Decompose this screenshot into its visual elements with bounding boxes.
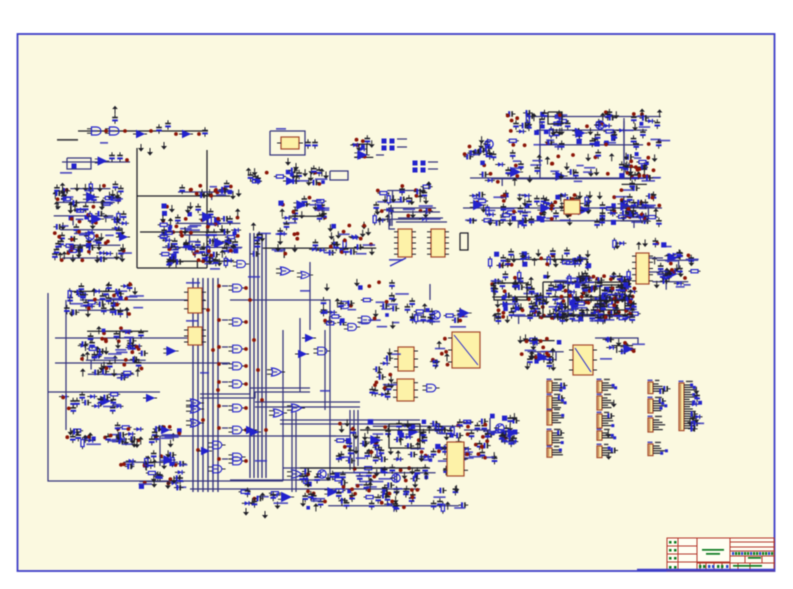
wire box (137, 195, 230, 197)
resistor (Z1) (109, 197, 121, 200)
diode (Z7b) (618, 284, 628, 288)
capacitor (Z16b) (631, 199, 637, 209)
node (Z3b) (193, 252, 197, 256)
part (Z6a) (594, 141, 599, 146)
ground (Z10e) (165, 450, 171, 458)
node (Z10e) (122, 462, 126, 466)
node (Z3a) (195, 192, 199, 196)
ground (293, 163, 299, 171)
capacitor (Z9a) (321, 297, 327, 307)
op-amp U20 (617, 202, 632, 211)
diode (Z11b) (606, 345, 616, 349)
gate column (228, 380, 245, 388)
capacitor (Z4a) (255, 175, 261, 185)
wire (621, 220, 650, 222)
ground (Z7a) (511, 255, 517, 263)
capacitor (Z9b) (421, 314, 427, 324)
ground (Z12a) (389, 381, 395, 389)
resistor (Z1) (74, 209, 86, 212)
capacitor (Z6c) (493, 220, 503, 226)
capacitor (Z6c) (503, 190, 509, 200)
label (Z9b) (418, 320, 430, 322)
power VCC (Z7b) (534, 294, 540, 302)
capacitor (Z10b) (127, 340, 133, 350)
diode (Z7b) (601, 288, 611, 292)
label (Z9b) (415, 314, 422, 316)
capacitor (Z12b) (447, 427, 453, 437)
node (Z3b) (161, 219, 165, 223)
capacitor (Z7b) (495, 311, 501, 321)
diode (Z12b) (441, 445, 451, 449)
capacitor (Z7b) (548, 282, 554, 292)
ground (Z7b) (560, 282, 566, 290)
node (Z7b) (613, 297, 617, 301)
part (Z8) (623, 282, 628, 287)
resistor (Z10b) (121, 371, 133, 374)
resistor (Z3b) (159, 253, 171, 256)
buffer U31 (143, 395, 157, 402)
node (Z12c) (342, 485, 346, 489)
capacitor (Z10d) (105, 433, 111, 443)
capacitor (Z3b) (221, 229, 231, 235)
power VCC (Z1) (62, 251, 68, 259)
ic U29 rotated (448, 332, 480, 368)
resistor (Z3b) (168, 247, 180, 250)
capacitor (Z7d) (677, 265, 683, 275)
ground (Z4a) (308, 167, 314, 175)
capacitor (Z4a) (248, 172, 254, 182)
part (Z6a) (541, 124, 545, 128)
resistor (Z1) (117, 211, 120, 223)
ground (Z6c) (487, 218, 493, 226)
node (Z7b) (616, 300, 620, 304)
ground (Z10b) (103, 347, 109, 355)
power VCC (Z12c) (339, 498, 345, 506)
label (Z12c) (360, 481, 370, 483)
capacitor (Z19) (483, 146, 493, 152)
diode (Z5b) (376, 218, 386, 222)
capacitor (Z19) (468, 150, 478, 156)
node (Z5b) (414, 188, 418, 192)
capacitor (Z7b) (512, 280, 518, 290)
resistor (Z5b) (421, 185, 433, 188)
capacitor (Z7b) (532, 303, 538, 313)
op-amp U13 (354, 151, 369, 160)
wire (501, 179, 503, 186)
capacitor (Z1) (58, 238, 64, 248)
node (Z3b) (207, 249, 211, 253)
diode (Z10b) (121, 374, 131, 378)
capacitor (Z7b) (496, 315, 502, 325)
node (Z8) (614, 313, 618, 317)
ground (Z12b) (491, 452, 497, 460)
node (Z3a) (189, 188, 193, 192)
power VCC (Z8) (602, 315, 608, 323)
power VCC (Z7b) (611, 272, 617, 280)
op-amp U27 (456, 309, 471, 318)
capacitor (Z6b) (510, 150, 516, 160)
capacitor (Z12b) (431, 448, 437, 458)
label (Z7b) (539, 296, 549, 298)
wire (528, 351, 564, 353)
capacitor (Z10f) (174, 485, 184, 491)
capacitor C11 (312, 139, 318, 149)
ground (Z8) (571, 310, 577, 318)
part (Z7b) (597, 316, 601, 320)
power VCC (Z9a) (335, 298, 341, 306)
capacitor (Z12c) (375, 494, 381, 504)
ground (Z12b) (362, 440, 368, 448)
power VCC (Z5b) (426, 181, 432, 189)
ground (Z16b) (621, 196, 627, 204)
capacitor (Z9b) (452, 317, 462, 323)
node (Z9a) (367, 284, 371, 288)
node (Z7d) (670, 268, 674, 272)
capacitor (Z6c) (553, 210, 559, 220)
diode (Z10c) (91, 404, 101, 408)
capacitor (Z6b) (491, 151, 497, 161)
capacitor (Z7b) (552, 306, 562, 312)
capacitor (Z7b) (532, 311, 542, 317)
capacitor (Z19) (477, 147, 487, 153)
diode (Z6c) (469, 194, 479, 198)
diode (Z9c) (430, 359, 440, 363)
node (Z6b) (515, 174, 519, 178)
node (Z10d) (65, 435, 69, 439)
wire loop (548, 112, 562, 124)
power VCC (Z1) (68, 202, 74, 210)
power VCC (Z3b) (168, 218, 174, 226)
diode (Z5b) (419, 217, 429, 221)
capacitor (Z10a) (111, 300, 117, 310)
label (Z12c) (314, 498, 325, 500)
wire loop (396, 221, 447, 223)
diode (Z5b) (384, 208, 394, 212)
wire (89, 245, 91, 255)
part (Z9band) (331, 224, 336, 229)
node bus (217, 284, 221, 288)
resistor (Z10d) (120, 426, 132, 429)
label (Z10d) (162, 434, 173, 436)
capacitor (Z12b) (385, 428, 391, 438)
capacitor (Z5b) (406, 195, 412, 205)
label (Z6a) (639, 126, 651, 128)
label (Z6c) (501, 208, 515, 210)
ground (Z7d) (688, 259, 694, 267)
label (Z10g) (258, 496, 269, 498)
ground (Z11a) (529, 352, 535, 360)
capacitor (Z9band) (255, 240, 261, 250)
node (174, 132, 178, 136)
capacitor (Z12c) (459, 502, 469, 508)
ground (Z1) (114, 191, 120, 199)
resistor (Z4a) (274, 175, 286, 178)
capacitor (Z1) (95, 211, 105, 217)
ground (Z8) (562, 302, 568, 310)
part (Z12c) (380, 467, 385, 472)
capacitor (Z10d) (116, 432, 122, 442)
ground (Z12b) (353, 432, 359, 440)
ground (161, 142, 167, 150)
wire (255, 401, 360, 403)
label (Z6c) (557, 196, 566, 198)
part (Z7b) (574, 304, 578, 308)
gate column (228, 362, 245, 370)
capacitor C4 (165, 120, 171, 130)
node (Z12b) (420, 450, 424, 454)
power VCC (Z7b) (536, 311, 542, 319)
wire (557, 145, 559, 150)
wire (620, 282, 622, 291)
capacitor (Z5b) (373, 202, 379, 212)
node (125, 158, 129, 162)
capacitor (Z10a) (106, 282, 112, 292)
capacitor (Z8) (591, 307, 597, 317)
capacitor (Z10e) (151, 450, 157, 460)
node (Z6c) (500, 195, 504, 199)
capacitor (Z12b) (477, 440, 483, 450)
node bus (217, 426, 221, 430)
node (Z9band) (283, 252, 287, 256)
gate column (228, 426, 245, 434)
node (Z6c) (503, 194, 507, 198)
capacitor (Z16b) (628, 209, 634, 219)
part (Z12b) (410, 424, 415, 429)
capacitor (Z10d) (156, 425, 166, 431)
diode (Z7b) (598, 305, 608, 309)
node (Z6c) (620, 198, 624, 202)
capacitor (Z10a) (67, 294, 73, 304)
wire (62, 257, 121, 259)
wire (196, 261, 198, 268)
node (Z7d) (687, 254, 691, 258)
power VCC (Z6c) (558, 193, 564, 201)
diode (Z7b) (627, 302, 637, 306)
resistor (Z7a) (578, 254, 581, 266)
node (Z10d) (87, 435, 91, 439)
part (Z3b) (233, 231, 237, 235)
node bus (217, 380, 221, 384)
node (Z19) (468, 145, 472, 149)
capacitor (Z6c) (625, 205, 631, 215)
power VCC (Z9b) (422, 303, 428, 311)
label (Z9a) (359, 322, 370, 324)
capacitor (Z1) (55, 240, 61, 250)
capacitor (Z10a) (106, 295, 112, 305)
node (Z1) (87, 240, 91, 244)
resistor (Z7d) (689, 270, 701, 273)
power VCC (Z5b) (385, 214, 391, 222)
capacitor (Z1) (86, 245, 96, 251)
wire (492, 296, 611, 298)
node (Z3b) (201, 259, 205, 263)
wire (211, 192, 213, 200)
part (Z4b) (317, 204, 322, 209)
label (Z7b) (558, 310, 567, 312)
resistor (Z6c) (641, 212, 644, 224)
label (Z3a) (216, 194, 226, 196)
ground (Z1) (76, 251, 82, 259)
part (Z12b) (346, 438, 351, 443)
wire (280, 423, 420, 425)
node (Z9band) (293, 232, 297, 236)
capacitor (Z6c) (631, 202, 641, 208)
capacitor (Z3b) (195, 204, 201, 214)
node (Z6c) (639, 201, 643, 205)
node (Z12b) (417, 438, 421, 442)
resistor (Z10b) (87, 347, 99, 350)
part (162, 204, 167, 209)
node (Z1) (86, 213, 90, 217)
part (Z4a) (321, 180, 325, 184)
capacitor (Z12b) (457, 419, 463, 429)
capacitor C2 (156, 124, 162, 134)
gate (313, 347, 330, 355)
wire (623, 206, 652, 208)
ground (Z10d) (134, 440, 140, 448)
capacitor (Z10a) (80, 291, 86, 301)
label (Z6c) (643, 205, 656, 207)
resistor (Z7b) (518, 270, 521, 282)
node (Z3b) (179, 230, 183, 234)
power VCC (Z9c) (444, 353, 450, 361)
wire main H (78, 130, 208, 132)
label (Z7b) (491, 280, 501, 282)
capacitor (Z6c) (501, 204, 507, 214)
node (Z3a) (189, 188, 193, 192)
part (286, 170, 291, 175)
diode (Z12b) (463, 420, 473, 424)
wire (162, 246, 242, 248)
capacitor (Z10a) (74, 290, 84, 296)
ground (Z12c) (325, 473, 331, 481)
capacitor (Z9b) (428, 314, 434, 324)
ground (Z3b) (201, 243, 207, 251)
capacitor (Z7b) (601, 293, 607, 303)
diode (Z10b) (132, 344, 142, 348)
ground (Z1) (60, 223, 66, 231)
resistor (Z6a) (553, 115, 565, 118)
power VCC (Z1) (76, 248, 82, 256)
label (60, 172, 72, 174)
power VCC (Z10b) (96, 326, 102, 334)
ground (Z1) (94, 235, 100, 243)
resistor (Z6c) (626, 211, 638, 214)
node (Z1) (102, 184, 106, 188)
node (Z6a) (604, 143, 608, 147)
capacitor (Z12c) (394, 486, 400, 496)
resistor (Z6c) (604, 207, 616, 210)
node (Z6a) (546, 141, 550, 145)
label (Z7b) (600, 319, 615, 321)
capacitor (Z1) (96, 237, 102, 247)
capacitor (Z1) (83, 203, 89, 213)
diode (Z6a) (602, 124, 612, 128)
capacitor (Z10d) (153, 426, 163, 432)
diode (Z3b) (231, 228, 241, 232)
capacitor (Z7b) (612, 292, 618, 302)
ground (Z1) (98, 233, 104, 241)
label (Z7b) (555, 298, 564, 300)
capacitor (Z7b) (534, 293, 544, 299)
power VCC (Z1) (103, 214, 109, 222)
node (Z1) (87, 250, 91, 254)
capacitor (Z10b) (114, 331, 120, 341)
capacitor (Z10f) (177, 475, 183, 485)
capacitor (Z12c) (385, 482, 395, 488)
ground (Z7c) (614, 242, 620, 250)
capacitor (Z16a) (629, 180, 635, 190)
node (Z12c) (353, 467, 357, 471)
wire (324, 330, 326, 410)
ground (Z3a) (236, 189, 242, 197)
ground (Z7b) (495, 300, 501, 308)
gate column (228, 345, 245, 353)
capacitor (Z9b) (457, 308, 463, 318)
ground (Z5b) (375, 208, 381, 216)
part opto A3 (382, 146, 387, 151)
node (Z4a) (313, 171, 317, 175)
power VCC (Z12a) (377, 370, 383, 378)
resistor (Z5b) (373, 213, 376, 225)
node (Z11a) (534, 355, 538, 359)
wire (397, 138, 407, 140)
part (Z6a) (604, 141, 609, 146)
label (Z6a) (624, 130, 633, 132)
capacitor (Z19) (464, 154, 474, 160)
ground (Z1) (60, 187, 66, 195)
capacitor (Z9band) (343, 246, 349, 256)
capacitor (Z6b) (487, 150, 493, 160)
power VCC (Z1) (53, 191, 59, 199)
ground (Z7b) (536, 295, 542, 303)
capacitor (Z3b) (161, 227, 167, 237)
wire (70, 188, 110, 190)
part opto A2 (390, 139, 395, 144)
capacitor (Z12b) (422, 434, 428, 444)
capacitor (Z7b) (630, 314, 636, 324)
label (Z3b) (204, 263, 214, 265)
diode (Z10f) (175, 470, 185, 474)
wire loop (543, 282, 568, 317)
capacitor (Z7b) (626, 281, 632, 291)
ground (Z10g) (275, 502, 281, 510)
ground (Z4b) (312, 203, 318, 211)
capacitor (Z6c) (573, 206, 583, 212)
power VCC (Z11b) (623, 342, 629, 350)
resistor (Z12b) (461, 420, 473, 423)
capacitor (Z7b) (629, 299, 635, 309)
or gate (276, 267, 294, 275)
node (Z12b) (369, 450, 373, 454)
node (Z10g) (253, 497, 257, 501)
capacitor (Z9a) (337, 320, 347, 326)
resistor (Z12b) (377, 447, 380, 459)
node (Z10b) (127, 330, 131, 334)
wire (179, 234, 227, 236)
capacitor (Z6a) (633, 141, 639, 151)
label (Z1) (62, 196, 73, 198)
capacitor (Z7b) (513, 305, 523, 311)
diode (Z11b) (603, 337, 613, 341)
node (Z7b) (560, 295, 564, 299)
label (Z12c) (433, 496, 445, 498)
diode (Z12b) (403, 435, 413, 439)
op-amp U23 (664, 254, 679, 263)
label (Z6c) (615, 196, 629, 198)
node (Z3b) (189, 231, 193, 235)
ground (Z10b) (111, 369, 117, 377)
